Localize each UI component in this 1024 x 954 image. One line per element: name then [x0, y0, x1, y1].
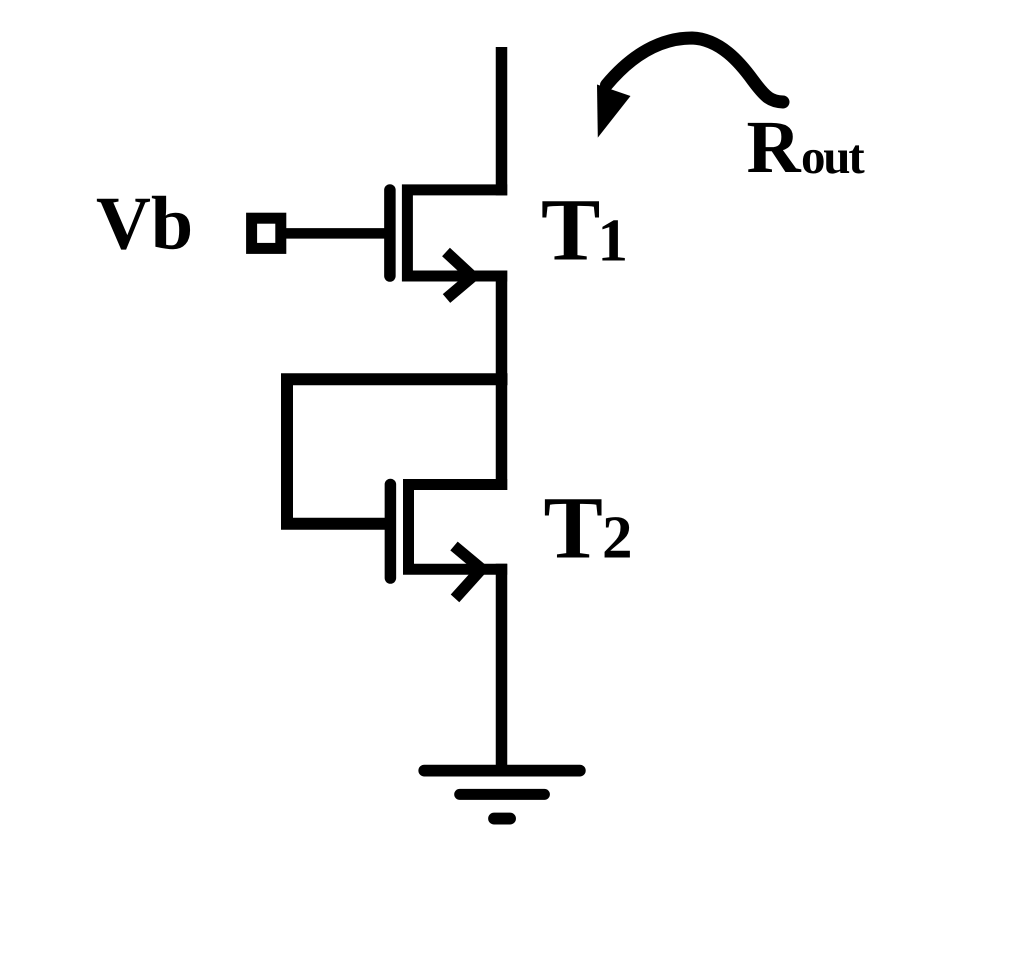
- wire: T1 source to T2 drain vertical: [496, 271, 508, 491]
- transistor T1 source arrow: [446, 252, 473, 299]
- transistor T1: [390, 190, 507, 276]
- svg-text:T: T: [544, 480, 603, 578]
- ground symbol: [424, 771, 580, 819]
- terminal Vb square: [252, 218, 281, 248]
- wire: T1 gate lead: [283, 228, 386, 239]
- svg-text:out: out: [801, 129, 865, 184]
- curved arrow (Rout measurement): [597, 38, 783, 138]
- wire: T2 diode-connect feedback loop: [287, 379, 508, 524]
- svg-text:Vb: Vb: [96, 181, 193, 265]
- wire: output node top vertical: [496, 47, 508, 195]
- svg-text:R: R: [747, 106, 802, 189]
- transistor T2: [390, 485, 507, 579]
- wire: T2 source to ground: [496, 564, 508, 765]
- svg-text:1: 1: [598, 208, 629, 275]
- transistor T2 source arrow: [454, 546, 482, 598]
- svg-text:2: 2: [602, 505, 633, 572]
- svg-text:T: T: [541, 182, 600, 280]
